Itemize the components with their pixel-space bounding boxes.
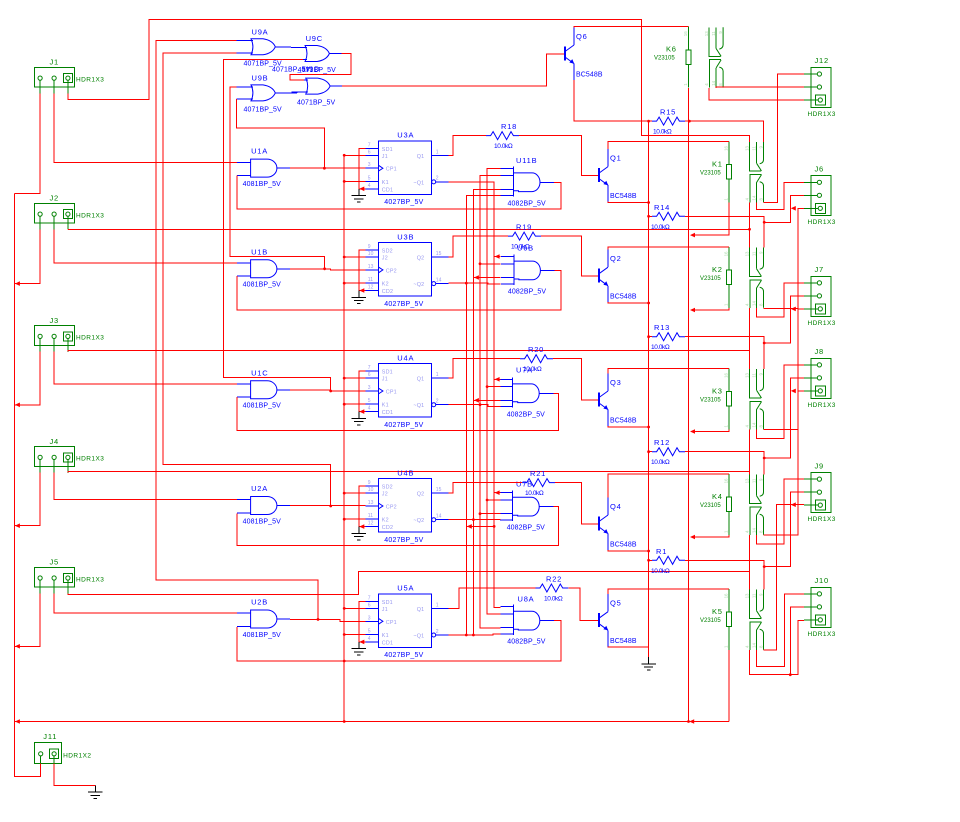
wire U5A J/K to rail [344,607,365,609]
svg-text:10.0kΩ: 10.0kΩ [511,244,530,251]
svg-text:U3B: U3B [397,232,414,241]
svg-text:10.0kΩ: 10.0kΩ [544,596,563,603]
svg-text:6: 6 [368,372,371,378]
svg-text:J2: J2 [50,194,60,203]
wire bus line 3 (to U11B in2 / U8A in3) [480,176,501,628]
wire U6B out feedback to U1B inB [237,271,561,311]
resistor R1 10.0k [652,556,685,564]
wire J7 pin2 down join [764,296,804,343]
wire U9B out to U9D inB [275,92,297,94]
wire U3A J/K to rail [344,154,365,156]
svg-text:5: 5 [368,629,371,635]
wire U4A SD-CD tie to ground [359,371,366,412]
transistor Q3 BC548B [590,399,599,401]
svg-text:10.0kΩ: 10.0kΩ [494,143,513,150]
junction arrow at rail [689,719,694,724]
svg-text:8: 8 [758,645,763,648]
svg-text:J1: J1 [382,607,388,613]
wire J2 pin2 to U1B input A [54,229,237,263]
svg-text:2: 2 [436,399,439,405]
svg-text:9: 9 [758,593,763,596]
svg-text:Q2: Q2 [417,256,425,262]
svg-text:8: 8 [758,198,763,201]
AND gate U1A 4081BP_5V [237,159,290,177]
wire R1 right to K5 contact3 and J9 pin2 [685,560,764,589]
junction arrow on J9 pin3 [791,502,796,507]
wire U1B out to U3B clock [290,269,365,270]
connector J2 HDR1X3 [35,203,75,229]
svg-text:10.0kΩ: 10.0kΩ [651,224,670,231]
svg-text:CP1: CP1 [386,167,397,173]
resistor R20 10.0k [520,355,553,363]
svg-text:J7: J7 [815,265,825,274]
svg-text:U9C: U9C [306,34,323,43]
wire K1 contact2 to J6 pin1 [757,182,805,209]
svg-text:HDR1X3: HDR1X3 [76,76,104,83]
svg-text:K2: K2 [382,282,389,288]
resistor R13 10.0k [652,333,685,341]
svg-text:R14: R14 [654,203,670,212]
wire J8 pin3 down to K4 contact3 jog [764,391,805,535]
svg-text:HDR1X2: HDR1X2 [63,752,91,759]
connector J8 HDR1X3 [804,358,831,398]
svg-text:11: 11 [751,251,756,256]
OR gate U9A 4071BP_5V [237,39,288,55]
svg-text:K5: K5 [712,607,723,616]
resistor R18 10.0k [486,132,519,140]
JK flip-flop U4A 4027BP_5V [378,364,431,417]
connector J9 HDR1X3 [804,473,831,513]
wire Q2 collector to K2 coil [608,247,729,250]
svg-text:13: 13 [744,251,749,256]
svg-text:4071BP_5V: 4071BP_5V [244,107,282,114]
svg-text:13: 13 [368,264,374,270]
svg-text:2: 2 [436,629,439,635]
svg-text:SD1: SD1 [382,370,393,376]
svg-text:CD1: CD1 [382,410,393,416]
svg-text:HDR1X3: HDR1X3 [76,456,104,463]
wire J10 pin2 stub wire [790,607,804,675]
wire Q6 emitter to R15 and ground rail [574,80,650,121]
svg-text:8: 8 [758,530,763,533]
AND gate U2B 4081BP_5V [237,610,290,628]
svg-text:1: 1 [683,83,688,86]
wire K2 contact2 to J7 pin1 [757,283,805,317]
wire U9D out to Q6 base [342,54,556,86]
junction arrow [15,644,20,649]
svg-text:BC548B: BC548B [610,638,637,645]
wire Q4 collector to K4 coil [608,474,729,498]
relay K2 V23105 [726,247,763,308]
OR gate U9C 4071BP_5V [291,46,342,62]
wire K1 contact1 down to K2 contact1 [749,202,751,247]
svg-text:3: 3 [368,615,371,621]
wire Q4 emitter to rail [608,550,649,551]
JK flip-flop U3B 4027BP_5V [378,243,431,296]
transistor Q5 BC548B [590,620,599,622]
wire K5 contact1 jog to J10 pin3 [750,621,805,675]
wire U3B ~Q direct to U6B in4 [449,282,501,285]
svg-text:U3A: U3A [397,131,414,140]
svg-text:4082BP_5V: 4082BP_5V [508,289,546,296]
svg-text:J8: J8 [815,347,825,356]
resistor R22 10.0k [535,584,568,592]
connector J1 HDR1X3 [35,67,75,93]
svg-text:16: 16 [723,251,728,256]
svg-text:10: 10 [368,251,374,257]
svg-text:BC548B: BC548B [610,542,637,549]
svg-text:~Q2: ~Q2 [413,282,424,288]
wire U6B in3 from bus2 [473,277,500,279]
svg-text:K2: K2 [712,265,723,274]
svg-text:V23105: V23105 [700,398,721,404]
wire K3 coil bottom arrow to rail [694,429,729,431]
svg-text:R18: R18 [501,122,517,131]
wire J/K vertical rail [343,155,345,721]
wire J3 pin1 to rail [14,352,40,405]
svg-text:K1: K1 [382,633,389,639]
svg-text:BC548B: BC548B [576,72,603,79]
AND4 gate U8A 4082BP_5V [501,605,555,635]
svg-text:10.0kΩ: 10.0kΩ [651,568,670,575]
svg-text:HDR1X3: HDR1X3 [76,576,104,583]
wire U6B in1 from bus5 [494,256,501,258]
svg-text:11: 11 [751,478,756,483]
svg-text:HDR1X3: HDR1X3 [808,516,836,523]
svg-text:9: 9 [368,480,371,486]
svg-text:4082BP_5V: 4082BP_5V [507,411,545,418]
wire U7B in2 from bus4 [487,499,501,501]
svg-text:V23105: V23105 [700,276,721,282]
wire R20 to Q3 base [553,359,590,400]
svg-text:9: 9 [368,244,371,250]
OR gate U9B 4071BP_5V [237,85,288,101]
svg-text:13: 13 [368,500,374,506]
svg-text:6: 6 [368,149,371,155]
wire bottom bus [14,721,729,723]
wire bus line 1 (to U11B in4) [466,196,500,635]
AND4 gate U6B 4082BP_5V [501,255,554,285]
svg-text:13: 13 [704,31,709,36]
AND gate U2A 4081BP_5V [237,497,290,515]
svg-text:8: 8 [758,303,763,306]
JK flip-flop U3A 4027BP_5V [378,141,431,194]
svg-text:1: 1 [723,530,728,533]
wire R14 right to K2 contact3 and J6 pin2 [685,216,764,247]
connector J12 HDR1X3 [804,67,831,107]
svg-text:6: 6 [368,602,371,608]
wire K3 contact1 down to K4 contact1 [749,429,751,471]
wire bus line 4 (to U11B in1 / U8A in2) [487,168,501,614]
svg-text:4: 4 [704,83,709,86]
wire K5 coil bottom to bottom bus [728,650,730,722]
svg-text:16: 16 [723,372,728,377]
svg-text:16: 16 [723,145,728,150]
ground [352,189,367,202]
svg-text:4081BP_5V: 4081BP_5V [243,518,281,525]
wire U7A out feedback to U1C inB [237,393,558,430]
svg-text:U1B: U1B [251,247,268,256]
svg-text:J1: J1 [50,58,60,67]
wire U6B in2 from bus3 [480,263,501,265]
wire K6 contact1 to J12 pin3 [709,88,804,100]
svg-text:J12: J12 [815,56,830,65]
wire Q3 collector to K3 coil [608,369,729,374]
svg-text:R20: R20 [528,345,544,354]
svg-text:K1: K1 [712,160,723,169]
wire U4A ~Q direct to U7A in4 [449,405,501,407]
wire rail joins feedback5 [343,660,346,663]
svg-text:Q2: Q2 [417,492,425,498]
resistor R15 10.0k [652,117,685,125]
resistor R21 10.0k [522,479,555,487]
svg-text:CD1: CD1 [382,640,393,646]
wire R12 left junction [647,450,650,453]
wire J12 pin1 down to K1 contact3 jog [764,74,805,202]
svg-text:R22: R22 [546,575,562,584]
svg-text:9: 9 [758,372,763,375]
wire U8A out feedback to U2B inB [237,621,561,661]
svg-text:HDR1X3: HDR1X3 [808,219,836,226]
wire K2 contact1 down to K3 contact1 [749,308,751,351]
wire U1A out to U3A clock [290,167,365,169]
AND4 gate U7A 4082BP_5V [500,377,554,407]
connector J10 HDR1X3 [804,587,831,627]
svg-text:4: 4 [368,183,371,189]
wire R15 right to K1 contact3 [685,121,764,142]
svg-text:11: 11 [368,277,373,283]
svg-text:8: 8 [758,425,763,428]
svg-text:HDR1X3: HDR1X3 [808,111,836,118]
wire R12 right to K4 contact3 and J8 pin2 [685,452,764,475]
wire J5 pin2 to U2B input A [54,593,237,613]
wire J4 pin3 to K4 contact 1 [68,471,750,475]
wire ground rail vertical [648,121,650,657]
wire K4 contact1 down to K5 contact1 [749,535,751,572]
svg-text:R21: R21 [530,469,546,478]
svg-text:4082BP_5V: 4082BP_5V [507,639,545,646]
wire K6 contact2 to J12 pin2 [716,86,804,89]
svg-text:9: 9 [758,478,763,481]
wire J3 pin2 to U1C input A [54,352,237,384]
svg-text:Q1: Q1 [417,154,425,160]
relay K3 V23105 [726,368,763,429]
wire left vertical rail [14,194,40,777]
junction arrow on J8 pin3 [791,389,796,394]
svg-text:4: 4 [744,198,749,201]
wire U9C out loop to U9D inA [290,54,351,81]
wire J1 pin3 via top to K1 contact 1 [68,20,750,143]
wire Q6 collector to K6 coil [574,26,689,29]
svg-text:1: 1 [723,198,728,201]
svg-text:14: 14 [711,80,716,85]
svg-text:14: 14 [751,643,756,648]
svg-text:CD2: CD2 [382,289,393,295]
wire Q1 collector to K1 coil [608,142,729,150]
svg-text:8: 8 [718,83,723,86]
svg-text:10.0kΩ: 10.0kΩ [653,129,672,136]
svg-text:Q5: Q5 [610,599,622,608]
wire J7 pin3 down to K3 contact3 jog [764,309,805,429]
svg-text:13: 13 [744,593,749,598]
wire J2 pin3 to K2 contact 1 [68,228,750,230]
wire J9 pin2 down join [764,492,804,566]
svg-text:Q1: Q1 [417,377,425,383]
svg-text:HDR1X3: HDR1X3 [76,335,104,342]
svg-text:4: 4 [368,406,371,412]
svg-text:V23105: V23105 [700,171,721,177]
svg-text:U8A: U8A [518,595,535,604]
svg-text:4071BP_5V: 4071BP_5V [297,100,335,107]
svg-text:11: 11 [368,513,373,519]
wire U2A out to U4B clock [290,505,365,507]
svg-text:4: 4 [744,530,749,533]
svg-text:4027BP_5V: 4027BP_5V [384,422,423,429]
svg-text:U4A: U4A [397,353,414,362]
svg-text:~Q1: ~Q1 [413,634,424,640]
wire bus U9B inA to U3B clock [230,87,325,269]
svg-text:5: 5 [368,398,371,404]
svg-text:HDR1X3: HDR1X3 [808,402,836,409]
svg-text:4081BP_5V: 4081BP_5V [243,181,281,188]
wire J6 pin2 down join [764,195,804,222]
svg-text:~Q1: ~Q1 [413,403,424,409]
wire R21 to Q4 base [555,483,590,524]
svg-text:U2B: U2B [251,598,268,607]
wire U1C out to U4A clock [290,390,365,391]
svg-text:J11: J11 [43,732,57,741]
svg-text:9: 9 [718,31,723,34]
wire Q1 emitter to rail [608,201,649,202]
svg-text:5: 5 [368,175,371,181]
wire K2 coil bottom arrow to rail [694,308,729,310]
wire U7A in3 from bus2 [473,399,500,401]
svg-text:14: 14 [751,301,756,306]
wire U5A SD-CD tie to ground [359,601,366,642]
svg-text:J2: J2 [382,256,388,262]
AND gate U1B 4081BP_5V [237,260,290,278]
wire U3A Q to R18 [449,136,487,156]
svg-text:4071BP_5V: 4071BP_5V [272,67,310,74]
svg-text:J4: J4 [50,437,60,446]
svg-text:1: 1 [436,602,439,608]
transistor Q6 BC548B [556,53,565,55]
svg-text:U5A: U5A [397,584,414,593]
wire J11 pin2 to ground [54,763,95,785]
wire U5A ~Q direct to U8A in4 [449,633,501,636]
svg-text:Q1: Q1 [610,154,622,163]
transistor Q4 BC548B [590,523,599,525]
wire U7A in2 from bus4 [487,386,501,388]
wire R19 to Q2 base [541,236,590,276]
svg-text:4027BP_5V: 4027BP_5V [384,652,423,659]
svg-text:4: 4 [368,636,371,642]
connector J4 HDR1X3 [35,447,75,473]
resistor R14 10.0k [652,212,685,220]
svg-text:SD1: SD1 [382,147,393,153]
wire U7B in3 from bus3 [480,513,501,515]
wire R18 to Q1 base [519,136,590,176]
svg-text:13: 13 [744,478,749,483]
svg-text:J6: J6 [815,165,825,174]
wire U4B J/K to rail [344,492,365,494]
svg-text:12: 12 [368,521,374,527]
wire R13 left junction [647,335,650,338]
wire K5 contact2 to J10 pin1 [757,594,805,667]
svg-text:14: 14 [436,277,442,283]
svg-text:9: 9 [758,145,763,148]
wire J1 pin1 to rail [14,93,40,193]
relay K5 V23105 [726,589,763,650]
wire R13 right to K3 contact3 and J7 pin2 [685,337,764,369]
svg-text:4081BP_5V: 4081BP_5V [243,403,281,410]
svg-text:Q2: Q2 [610,254,622,263]
svg-text:U4B: U4B [397,468,414,477]
svg-text:V23105: V23105 [700,503,721,509]
ground [641,657,656,670]
junction arrow on J6 pin3 [791,206,796,211]
svg-text:4027BP_5V: 4027BP_5V [384,301,423,308]
wire U4A J/K to rail [344,377,365,379]
svg-text:1: 1 [436,149,439,155]
svg-text:SD2: SD2 [382,249,393,255]
svg-text:R13: R13 [654,323,670,332]
junction arrow [15,403,20,408]
svg-text:CP1: CP1 [386,390,397,396]
wire J1 pin2 to U1A input A [54,93,237,162]
svg-text:15: 15 [436,487,442,493]
wire crossover link on buses [466,525,494,527]
relay K4 V23105 [726,474,763,535]
ground [352,642,367,655]
svg-text:U1A: U1A [251,147,268,156]
svg-text:11: 11 [751,145,756,150]
svg-text:11: 11 [751,593,756,598]
wire Q5 emitter to ground rail [608,646,649,649]
svg-text:SD2: SD2 [382,485,393,491]
wire J3 pin3 to K3 contact 1 [68,351,750,370]
transistor Q2 BC548B [590,275,599,277]
ground [352,412,367,425]
AND4 gate U11B 4082BP_5V [501,166,555,196]
svg-text:16: 16 [723,478,728,483]
svg-text:CD1: CD1 [382,187,393,193]
wire J11 pin1 from rail [40,763,42,776]
wire R14 left to rail [647,215,650,218]
wire J4 pin2 to U2A input A [54,473,237,500]
wire U5A Q to R22 [449,588,536,608]
svg-text:J5: J5 [50,558,60,567]
svg-text:BC548B: BC548B [610,418,637,425]
svg-text:HDR1X3: HDR1X3 [808,631,836,638]
resistor R19 10.0k [508,232,541,240]
svg-text:10.0kΩ: 10.0kΩ [651,344,670,351]
svg-text:1: 1 [723,425,728,428]
connector J11 HDR1X2 [34,742,61,769]
connector J7 HDR1X3 [804,276,831,316]
svg-text:4082BP_5V: 4082BP_5V [507,525,545,532]
svg-text:14: 14 [751,422,756,427]
svg-text:SD1: SD1 [382,600,393,606]
svg-text:CP2: CP2 [386,505,397,511]
svg-text:U9B: U9B [252,73,269,82]
svg-text:14: 14 [751,195,756,200]
svg-text:10: 10 [368,487,374,493]
transistor Q1 BC548B [590,175,599,177]
connector J5 HDR1X3 [35,567,75,593]
svg-text:U2A: U2A [251,484,268,493]
svg-text:J2: J2 [382,492,388,498]
